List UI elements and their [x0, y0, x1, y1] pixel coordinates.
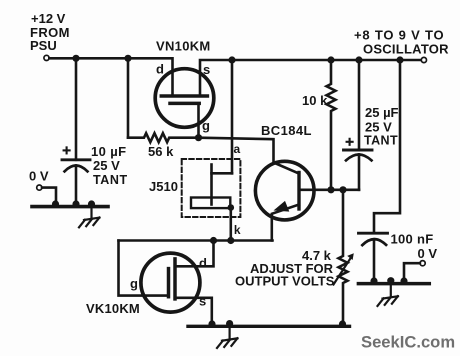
diode CR1 J510 anode bar: [212, 172, 233, 175]
MOSFET Q3 VK10KM body: [141, 253, 200, 312]
capacitor C2 curved plate: [346, 155, 372, 161]
node 56k tap: [124, 55, 131, 62]
capacitor C1 10uF top lead: [75, 58, 78, 160]
node right bar gnd stem: [387, 277, 394, 284]
MOSFET Q3 gate bar: [167, 269, 171, 297]
diode CR1 J510 channel line: [210, 165, 213, 205]
MOSFET Q1 gate bar: [170, 102, 199, 106]
wire k node rail: [119, 239, 273, 242]
capacitor C2 25uF top lead: [358, 60, 361, 150]
transistor Q2 base bar: [297, 173, 300, 210]
transistor Q2 emitter: [272, 205, 299, 241]
svg-text:s: s: [199, 294, 206, 309]
plus sign C1: [64, 147, 70, 153]
terminal +12V input: [44, 55, 49, 60]
svg-text:BC184L: BC184L: [261, 123, 312, 138]
ground bar right: [358, 282, 429, 286]
MOSFET Q1 VN10KM body: [155, 69, 214, 128]
terminal 0V right: [420, 261, 425, 266]
svg-text:d: d: [199, 256, 207, 271]
capacitor C3 100nF feed wire: [374, 60, 400, 233]
svg-text:a: a: [234, 142, 241, 156]
svg-text:TANT: TANT: [364, 134, 398, 148]
node right bar C3: [370, 277, 377, 284]
svg-text:PSU: PSU: [30, 38, 57, 53]
svg-text:J510: J510: [149, 179, 178, 194]
transistor Q2 emitter arrow: [274, 201, 290, 212]
MOSFET Q1 channel bar: [161, 94, 207, 98]
svg-text:g: g: [130, 276, 138, 291]
ground bar bottom center: [188, 325, 350, 328]
svg-text:d: d: [156, 62, 164, 77]
svg-text:TANT: TANT: [93, 173, 128, 187]
diode CR1 J510 gate rectangle: [191, 198, 230, 209]
svg-text:25 V: 25 V: [93, 158, 120, 173]
terminal 0V left: [37, 185, 42, 190]
capacitor C1 plus plate: [62, 158, 90, 161]
svg-text:10 µF: 10 µF: [91, 144, 127, 159]
svg-text:+12 V: +12 V: [31, 11, 66, 26]
svg-text:SeekIC.com: SeekIC.com: [361, 333, 455, 352]
terminal output +8 to 9V: [421, 57, 426, 62]
wire Q3 source lead: [175, 298, 212, 325]
ground bar left: [32, 205, 108, 209]
capacitor C3 bottom lead: [373, 239, 376, 282]
svg-text:VN10KM: VN10KM: [156, 39, 211, 54]
wire Q3 gate lead: [119, 241, 169, 296]
potentiometer R3 wiper arrow: [334, 258, 352, 285]
svg-text:10 k: 10 k: [302, 93, 328, 108]
node VK10KM drain tap: [210, 237, 217, 244]
transistor Q2 BC184L body: [255, 161, 314, 220]
wire 0V right to ground bar: [404, 263, 420, 282]
node left bar 0V: [52, 200, 59, 207]
svg-text:+8 TO 9 V TO: +8 TO 9 V TO: [354, 28, 444, 43]
svg-text:25 V: 25 V: [365, 120, 392, 135]
resistor R1 56k: [128, 133, 199, 142]
wire gate node to BC184L collector: [199, 138, 299, 174]
node left bar C1: [72, 200, 79, 207]
node right bar 0V: [400, 277, 407, 284]
wire output rail to J510 anode: [231, 60, 234, 173]
svg-text:k: k: [234, 223, 241, 237]
svg-text:25 µF: 25 µF: [365, 105, 399, 120]
node 10k tap: [327, 56, 334, 63]
MOSFET Q3 channel bar: [173, 259, 177, 299]
node bottom bar Q3 source: [208, 320, 215, 327]
svg-text:VK10KM: VK10KM: [86, 301, 140, 316]
node Q1 gate junction: [195, 134, 202, 141]
wire Q2 base to divider node: [299, 189, 359, 192]
dashed box J510: [182, 159, 241, 217]
wire +12V rail to VN10KM drain: [49, 58, 172, 96]
node left bar gnd stem: [88, 200, 95, 207]
node J510 cathode junction: [228, 204, 235, 211]
ground symbol right: [378, 284, 398, 306]
wire Q3 drain lead: [175, 241, 214, 267]
wire J510 cathode lead: [230, 208, 233, 241]
node pot tap: [339, 186, 346, 193]
node J510 anode branch: [228, 56, 235, 63]
wire Q1 gate lead: [197, 103, 200, 137]
capacitor C2 bottom lead: [358, 154, 361, 189]
ground symbol bottom center: [217, 326, 237, 348]
node 25uF tap: [355, 56, 362, 63]
wire VN10KM source to output rail: [200, 60, 421, 96]
plus sign C2: [347, 139, 353, 145]
capacitor C3 top plate: [359, 232, 388, 235]
svg-text:OSCILLATOR: OSCILLATOR: [363, 42, 449, 57]
svg-text:s: s: [203, 62, 210, 77]
svg-text:0 V: 0 V: [29, 169, 49, 184]
ground symbol left: [79, 207, 99, 228]
node 100nF tap: [396, 56, 403, 63]
svg-text:100 nF: 100 nF: [391, 232, 434, 247]
node divider top: [327, 186, 334, 193]
resistor R2 10k: [327, 60, 336, 190]
svg-text:56 k: 56 k: [148, 144, 174, 159]
capacitor C3 curved plate: [362, 239, 386, 245]
node bottom bar pot: [339, 320, 346, 327]
node 10uF tap: [72, 55, 79, 62]
capacitor C1 curved plate: [65, 166, 88, 172]
wire 56k drop from rail: [127, 58, 130, 137]
capacitor C2 plus plate: [344, 149, 373, 152]
potentiometer R3 4.7k: [339, 190, 348, 325]
wire 0V terminal to left ground bar: [42, 188, 56, 205]
node bottom bar gnd stem: [226, 320, 233, 327]
svg-text:0 V: 0 V: [418, 246, 438, 261]
svg-text:OUTPUT VOLTS: OUTPUT VOLTS: [235, 274, 335, 289]
capacitor C1 bottom lead: [75, 165, 78, 205]
node J510 cathode tap: [227, 237, 234, 244]
svg-text:g: g: [202, 118, 210, 133]
